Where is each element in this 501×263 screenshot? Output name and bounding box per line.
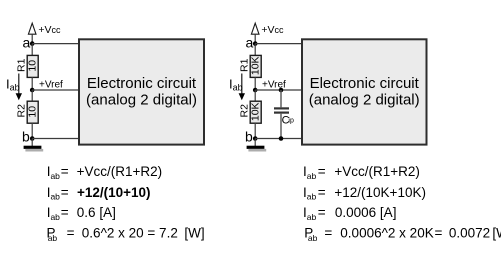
supply symbol +Vcc (left): [28, 23, 36, 43]
wire R1 to +Vref node (right): [254, 77, 256, 90]
svg-text:(analog 2 digital): (analog 2 digital): [86, 91, 197, 108]
formula left line 1: Iab = +Vcc/(R1+R2): [47, 164, 162, 181]
wire node b to box (right): [255, 138, 302, 140]
wire capacitor bottom plate to node b wire (right): [280, 114, 282, 139]
svg-text:Iab=+12/(10+10): Iab=+12/(10+10): [47, 185, 151, 202]
node +Vref (right): [253, 80, 286, 93]
svg-text:R1: R1: [238, 58, 250, 72]
+Vcc label (right): [261, 24, 284, 36]
svg-text:+Vcc: +Vcc: [261, 24, 284, 36]
junction of capacitor on +Vref wire (right): [279, 88, 284, 93]
wire R2 to node b (left): [31, 123, 33, 139]
wire node a to R1 (right): [254, 44, 256, 56]
resistor R2 (right) value 10K: [238, 101, 261, 123]
svg-text:a: a: [23, 35, 31, 51]
wire +Vref to box (left): [32, 89, 79, 91]
svg-text:10: 10: [27, 60, 39, 72]
node a (left): [23, 35, 35, 51]
svg-text:10K: 10K: [250, 102, 262, 121]
node b (right): [245, 129, 258, 145]
formula right line 2: Iab = +12/(10K+10K): [303, 185, 426, 202]
svg-text:+Vcc: +Vcc: [38, 24, 61, 36]
+Vcc label (left): [38, 24, 61, 36]
wire node b to ground (right): [254, 139, 256, 147]
current label Iab (left): [6, 76, 20, 92]
svg-text:Iab=+Vcc/(R1+R2): Iab=+Vcc/(R1+R2): [303, 164, 420, 181]
formula left line 4: Pab = 0.6^2 x 20 = 7.2 [W]: [47, 225, 205, 243]
wire node b to box (left): [32, 138, 79, 140]
wire +Vref to R2 (left): [31, 90, 33, 101]
current label Iab (right): [229, 76, 243, 92]
node a (right): [246, 35, 258, 51]
svg-text:R1: R1: [15, 58, 27, 72]
svg-text:ip: ip: [288, 118, 294, 125]
supply symbol +Vcc (right): [251, 23, 259, 43]
formula right line 4: Pab = 0.0006^2 x 20K = 0.0072 [W]: [304, 225, 501, 243]
resistor R2 (left) value 10: [15, 101, 38, 123]
formula right line 1: Iab = +Vcc/(R1+R2): [303, 164, 420, 181]
wire +Vref junction to capacitor top plate (right): [280, 90, 282, 107]
node +Vref (left): [30, 80, 63, 93]
wire node a to box (left): [32, 43, 79, 45]
svg-text:10K: 10K: [250, 56, 262, 75]
current arrow Iab (right): [239, 74, 245, 101]
electronic circuit box (left): [79, 39, 204, 144]
wire +Vref to R2 (right): [254, 90, 256, 101]
wire R2 to node b (right): [254, 123, 256, 139]
resistor R1 (left) value 10: [15, 55, 38, 77]
svg-text:Iab=+Vcc/(R1+R2): Iab=+Vcc/(R1+R2): [47, 164, 162, 181]
svg-text:b: b: [245, 129, 253, 145]
formula left line 2: Iab = +12/(10+10): [47, 185, 151, 202]
svg-text:R2: R2: [15, 104, 27, 118]
svg-text:+Vref: +Vref: [39, 80, 63, 91]
wire R1 to +Vref node (left): [31, 77, 33, 90]
wire node b to ground (left): [31, 139, 33, 147]
svg-text:(analog 2 digital): (analog 2 digital): [309, 91, 420, 108]
capacitor Cip (right): [274, 108, 289, 112]
svg-text:Electronic circuit: Electronic circuit: [310, 75, 420, 92]
svg-text:a: a: [246, 35, 254, 51]
svg-text:10: 10: [27, 106, 39, 118]
wire node a to box (right): [255, 43, 302, 45]
formula left line 3: Iab = 0.6 [A]: [47, 205, 116, 222]
node b (left): [22, 129, 35, 145]
wire node a to R1 (left): [31, 44, 33, 56]
svg-text:R2: R2: [238, 104, 250, 118]
formula right line 3: Iab = 0.0006 [A]: [303, 205, 396, 222]
junction of capacitor on node b wire (right): [279, 136, 284, 141]
svg-text:Iab=0.0006 [A]: Iab=0.0006 [A]: [303, 205, 396, 222]
ground (left): [24, 146, 44, 152]
current arrow Iab (left): [16, 74, 22, 101]
svg-text:Iab=+12/(10K+10K): Iab=+12/(10K+10K): [303, 185, 426, 202]
svg-text:b: b: [22, 129, 30, 145]
resistor R1 (right) value 10K: [238, 55, 261, 77]
ground (right): [247, 146, 267, 152]
svg-text:Electronic circuit: Electronic circuit: [87, 75, 197, 92]
wire +Vref to box (right): [255, 89, 302, 91]
capacitor Cip value label (right): [282, 115, 294, 127]
electronic circuit box (right): [302, 39, 427, 144]
